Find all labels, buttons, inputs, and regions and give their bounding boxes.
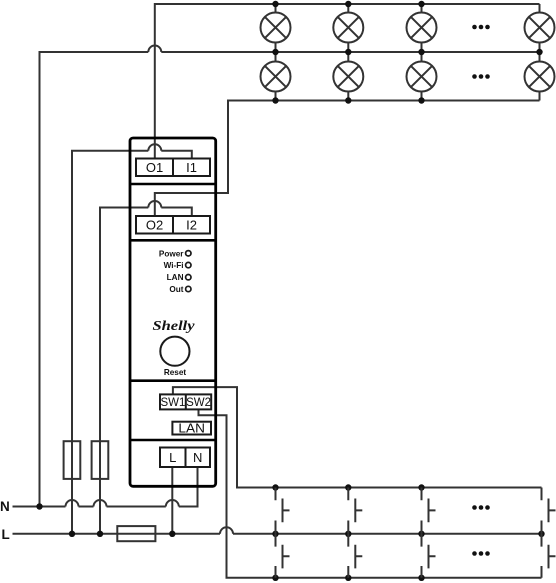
lamp L3 top row col3 [407,4,437,52]
wire lamp rail 2 (neutral rail between lamp rows) [40,46,540,507]
switch S8 row2 last [542,534,556,578]
junction dots rail2 [272,49,542,55]
lamp L7 bottom row col3 [407,52,437,101]
wire SW2 to switch bottom rail [199,409,542,577]
ellipsis switches row2 [472,551,490,556]
device section divider 1 [130,183,216,186]
switch S4 row1 last [542,488,556,534]
lamp L6 bottom row col2 [333,52,363,101]
svg-text:Shelly: Shelly [153,318,196,333]
wire O2 to bottom lamp rail [155,101,540,217]
svg-text:I2: I2 [186,218,197,233]
svg-text:O1: O1 [146,160,163,175]
device section divider 3 [130,379,216,382]
junction dots top rail [272,1,424,7]
wire L terminal to L line [171,467,173,534]
port LAN [172,422,211,435]
junction dots rail3 [272,97,424,103]
device section divider 4 [130,439,216,442]
switch S3 row1 col3 [422,488,436,534]
wire I2 to fuse F2 to L [100,201,192,534]
net N line [13,467,198,507]
svg-text:O2: O2 [146,218,163,233]
lamp L2 top row col2 [333,4,363,52]
svg-text:SW1: SW1 [160,397,185,409]
svg-text:Power: Power [159,249,184,258]
junction dots switch rails [272,484,424,581]
fuse F2 [92,441,109,479]
svg-text:Reset: Reset [164,368,187,377]
ellipsis lamps row2 [472,74,490,79]
svg-text:L: L [169,450,176,465]
svg-text:LAN: LAN [178,421,205,436]
svg-text:Wi-Fi: Wi-Fi [164,261,184,270]
wire O1 to top lamp rail [155,4,540,159]
ellipsis lamps row1 [472,25,490,30]
switch S7 row2 col3 [422,534,436,578]
svg-text:Out: Out [169,285,183,294]
lamp L4 top row last [525,4,555,52]
terminal block O2 I2 [136,216,210,234]
device section divider 2 [130,239,216,242]
ellipsis switches row1 [472,505,490,510]
switch S1 row1 col1 [276,488,290,534]
lamp L1 top row col1 [261,4,291,52]
svg-text:SW2: SW2 [186,397,211,409]
wire I1 to fuse F1 to L [72,144,192,534]
switch S6 row2 col2 [348,534,362,578]
lamp L8 bottom row last [525,52,555,101]
net L line with main fuse F3 [13,527,542,534]
terminal block L N [160,448,210,468]
lamp L5 bottom row col1 [261,52,291,101]
svg-text:I1: I1 [186,160,197,175]
reset button [160,337,189,366]
junction dots N and L lines [36,503,544,537]
fuse F1 [64,441,81,479]
svg-text:L: L [2,527,10,542]
svg-text:N: N [0,499,10,514]
switch S5 row2 col1 [276,534,290,578]
switch S2 row1 col2 [348,488,362,534]
terminal block SW1 SW2 [160,394,211,409]
terminal block O1 I1 [136,159,210,177]
svg-text:N: N [193,450,202,465]
fuse F3 [117,526,155,541]
wire SW1 to switch top rail [173,387,542,487]
device Shelly Pro 2 outer body [130,138,216,486]
svg-text:LAN: LAN [167,273,184,282]
